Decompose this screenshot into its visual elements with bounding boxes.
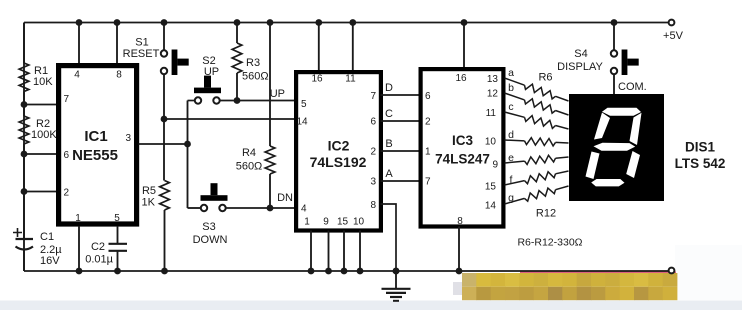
pin 8 wire IC1 [116,23,118,64]
svg-text:IC2: IC2 [328,138,350,154]
svg-text:c: c [508,101,513,113]
junction C2 ground [114,268,121,275]
svg-text:74LS192: 74LS192 [310,154,367,170]
svg-text:R3: R3 [246,57,260,69]
wire S1 top [163,23,165,51]
capacitor C2 [109,243,128,245]
svg-text:16: 16 [455,73,467,84]
svg-text:d: d [508,129,514,141]
pin 16 wire IC2 [318,23,320,71]
svg-text:7: 7 [370,91,376,102]
display digit 8 [602,108,641,116]
junction S2 pin3 [184,141,191,148]
junction top rail S4 [611,19,618,26]
resistor R8 [505,112,525,117]
pin 6 wire IC1 [24,153,56,155]
svg-text:b: b [508,82,514,94]
pin 11 wire IC2 [352,23,354,71]
junction top rail R4 [267,19,274,26]
pin 9 wire IC2 [328,231,330,272]
svg-text:R6-R12-330Ω: R6-R12-330Ω [517,237,582,249]
wire ground bottom rail [24,270,669,272]
svg-text:R4: R4 [242,147,256,159]
svg-text:B: B [385,138,392,150]
svg-text:12: 12 [487,89,499,100]
svg-text:3: 3 [370,177,376,188]
wire S2 vertical to S3 [187,101,189,209]
wire R3 top lead [236,23,238,44]
junction ground rail [393,268,400,275]
wire R1 top lead [23,23,25,64]
junction pin15 IC2 gnd [341,268,348,275]
switch S2 UP [195,97,201,103]
svg-text:RESET: RESET [123,48,160,60]
svg-text:10: 10 [353,217,365,228]
wire S2 left [188,100,195,102]
svg-text:6: 6 [64,150,70,161]
ground rail terminal [669,268,675,274]
svg-text:15: 15 [485,182,497,193]
svg-text:4: 4 [74,70,80,81]
svg-text:D: D [385,82,393,94]
junction R5 ground [161,268,168,275]
junction node pin7 [21,101,28,108]
svg-text:10K: 10K [33,76,53,88]
resistor R3 [232,43,242,73]
op-amp U1 IC1 NE555 box [59,66,137,224]
junction pin1 IC2 gnd [308,268,315,275]
svg-text:10: 10 [485,137,497,148]
svg-text:IC3: IC3 [452,133,474,148]
svg-text:e: e [508,152,514,164]
svg-text:0.01µ: 0.01µ [85,254,113,266]
junction top rail IC3 pin16 [461,19,468,26]
resistor R12 [505,198,525,204]
svg-text:16V: 16V [40,255,60,267]
svg-text:74LS247: 74LS247 [435,152,490,167]
pin 15 wire IC2 [343,231,345,272]
svg-text:R5: R5 [142,185,156,197]
svg-text:9: 9 [323,217,329,228]
svg-text:4: 4 [301,204,307,215]
svg-text:2: 2 [370,147,376,158]
junction top rail IC2 pin11 [349,19,356,26]
wire C2 bottom lead [117,251,119,271]
svg-text:DOWN: DOWN [193,234,228,246]
svg-text:+5V: +5V [663,30,684,42]
svg-text:C1: C1 [40,231,54,243]
junction pin8 IC2 gnd [393,268,400,275]
junction R4 S3 [267,205,274,212]
svg-text:11: 11 [345,74,356,85]
junction top rail pin4 [76,19,83,26]
svg-text:7: 7 [64,94,70,105]
pin 2 wire IC1 [24,191,56,193]
junction node pin2 [21,188,28,195]
wire left rail [23,23,25,272]
svg-text:UP: UP [270,88,285,100]
svg-text:8: 8 [116,70,122,81]
svg-text:DISPLAY: DISPLAY [557,61,603,73]
svg-text:560Ω: 560Ω [242,71,269,83]
counter IC2 74LS192 box [296,72,381,230]
junction top rail R3 [234,19,241,26]
pin 3 wire IC1 [139,143,188,145]
pin 8 wire IC2 [381,204,397,271]
junction pin9 IC2 gnd [325,268,332,275]
svg-text:f: f [510,174,513,186]
svg-text:6: 6 [425,91,431,102]
svg-text:1: 1 [304,217,310,228]
svg-text:DIS1: DIS1 [685,140,716,155]
svg-text:15: 15 [337,217,349,228]
pin 7 wire IC1 [24,104,56,106]
svg-text:5: 5 [301,99,307,110]
pin 1 wire IC2 [310,231,312,272]
junction pin10 IC2 gnd [357,268,364,275]
decoder IC3 74LS247 box [421,69,504,226]
resistor R9 [505,139,525,142]
svg-text:S4: S4 [574,48,587,60]
svg-text:IC1: IC1 [84,128,107,145]
wire R2 to C1 [23,144,25,239]
svg-text:C: C [385,108,393,120]
resistor R4 [265,146,275,174]
wire B [381,150,421,152]
resistor R10 [505,161,525,163]
wire R3 bottom lead [236,73,238,101]
svg-text:A: A [385,168,393,180]
svg-text:11: 11 [486,108,497,119]
pin 14 wire IC2 [164,118,294,120]
svg-text:1: 1 [425,147,431,158]
svg-text:1K: 1K [142,197,156,209]
svg-text:S3: S3 [202,221,215,233]
switch S4 DISPLAY [611,50,617,56]
censored watermark block [462,273,477,287]
+5V terminal [669,20,675,26]
wire R4 bottom lead [269,174,271,208]
junction S1 pin14 [161,116,168,123]
svg-text:a: a [508,67,514,79]
svg-text:NE555: NE555 [72,147,118,164]
junction node pin6 [21,151,28,158]
junction top rail S1 [161,19,168,26]
wire S3 left [188,207,201,209]
svg-text:8: 8 [370,200,376,211]
ground [395,271,397,289]
pin 5 wire IC1 [117,226,119,244]
switch S3 DOWN [201,205,207,211]
bottom page strip [0,301,742,310]
wire R1 bottom lead [23,92,25,117]
resistor R1 [19,63,29,92]
resistor R7 [505,93,525,100]
capacitor C1 [16,238,34,240]
switch S1 RESET [161,50,167,56]
wire D [381,94,421,96]
svg-text:LTS 542: LTS 542 [675,156,726,171]
svg-text:560Ω: 560Ω [236,161,263,173]
junction pin8 IC3 gnd [456,268,463,275]
wire R5 bottom [164,210,166,271]
svg-text:13: 13 [487,74,499,85]
wire R4 top lead [269,23,271,147]
svg-text:g: g [508,192,514,204]
svg-text:2: 2 [64,188,70,199]
svg-text:DN: DN [277,192,293,204]
wire S2 right to pin5 [220,100,295,102]
pin 8 wire IC3 [458,227,460,272]
resistor R6 [505,78,525,85]
svg-text:8: 8 [457,216,463,227]
pin 1 wire IC1 [78,226,80,271]
svg-text:14: 14 [297,117,309,128]
svg-text:14: 14 [485,201,497,212]
svg-text:C2: C2 [91,241,105,253]
svg-text:7: 7 [425,177,431,188]
junction pin1 ground [76,268,83,275]
resistor R11 [505,181,525,185]
svg-text:6: 6 [370,117,376,128]
wire S4 top [613,23,615,51]
svg-text:R12: R12 [536,208,556,220]
svg-text:R6: R6 [538,72,552,84]
svg-text:2: 2 [425,117,431,128]
wire C [381,120,421,122]
wire A [381,180,421,182]
svg-text:5: 5 [114,213,120,224]
resistor R2 [19,116,29,144]
display DIS1 body [569,94,664,201]
wire C1 bottom lead [23,250,25,272]
pink watermark line [520,271,676,273]
svg-text:COM.: COM. [618,81,647,93]
wire S1 bottom [163,74,165,180]
junction R3 bottom [234,97,241,104]
pin 4 wire IC1 [78,23,80,64]
pin 16 wire IC3 [463,23,465,68]
svg-text:3: 3 [125,133,131,144]
svg-text:1: 1 [75,213,81,224]
svg-text:100K: 100K [31,129,57,141]
wire +5V top rail [24,22,669,24]
svg-text:16: 16 [311,74,323,85]
svg-text:S1: S1 [135,37,148,49]
resistor R5 [160,181,170,211]
junction top rail IC2 pin16 [315,19,322,26]
svg-text:UP: UP [204,66,219,78]
wire S4 to display [613,74,615,94]
svg-text:9: 9 [492,160,498,171]
wire S3 right to pin4 [226,207,295,209]
pin 10 wire IC2 [359,231,361,272]
junction top rail pin8 [114,19,121,26]
